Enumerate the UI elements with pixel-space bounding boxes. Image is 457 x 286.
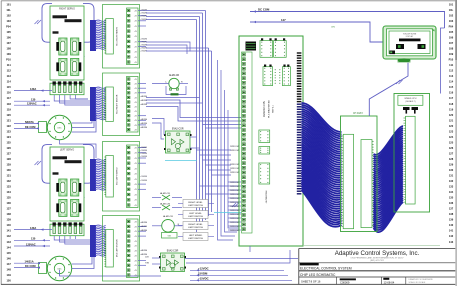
wire from DC COM down to CPU: [441, 28, 445, 94]
unit2 to bundle wires: [146, 97, 200, 99]
svg-text:106: 106: [6, 36, 11, 40]
svg-text:134: 134: [449, 190, 454, 194]
svg-text:SHEET 8 OF 16: SHEET 8 OF 16: [301, 279, 321, 283]
svg-text:MC1 RIGHT SERVO: MC1 RIGHT SERVO: [117, 27, 119, 46]
svg-text:12-08-04: 12-08-04: [384, 280, 395, 284]
DIP U1: [260, 41, 273, 58]
sheet border frame: [1, 0, 455, 2]
svg-text:111: 111: [449, 63, 454, 67]
fuse blocks: [403, 107, 410, 110]
bundle lower L-bends: [197, 149, 232, 151]
monitor stand: [398, 58, 411, 62]
svg-text:120: 120: [449, 113, 454, 117]
svg-text:120VAC: 120VAC: [26, 242, 36, 246]
cyan jumper wires: [165, 160, 197, 162]
svg-text:122: 122: [449, 124, 454, 128]
svg-text:139: 139: [6, 218, 11, 222]
svg-text:15VDM: 15VDM: [198, 272, 208, 276]
svg-text:DISPLAY: DISPLAY: [406, 35, 414, 38]
monitor drop wire: [369, 63, 408, 116]
wire label 14021A: [14, 262, 40, 264]
svg-text:MC2 RIGHT MOTOR: MC2 RIGHT MOTOR: [117, 94, 119, 113]
svg-text:108: 108: [449, 47, 454, 51]
15VDM label: [190, 274, 288, 276]
svg-text:109: 109: [449, 52, 454, 56]
label box LEFT SPEED LIMIT SWITCH: [178, 236, 183, 238]
svg-text:148: 148: [6, 267, 11, 271]
svg-text:RIGHT LEVEL: RIGHT LEVEL: [188, 224, 203, 226]
wire label DE COM: [14, 127, 39, 129]
svg-text:+12VDC: +12VDC: [198, 267, 209, 271]
svg-text:NDATA: NDATA: [25, 120, 34, 124]
svg-text:+AVDM: +AVDM: [140, 249, 147, 252]
DIP U5: [282, 67, 290, 86]
svg-text:+AVDM: +AVDM: [140, 225, 147, 228]
speed CPU connector: [406, 116, 416, 204]
extra bundle verticals: [218, 60, 234, 240]
svg-text:+5VDM: +5VDM: [140, 39, 147, 41]
wire harness loop around RIGHT SERVO drive: [42, 4, 94, 43]
svg-text:CEM2314 CPU: CEM2314 CPU: [263, 101, 266, 118]
svg-text:Adaptive Control Systems, Inc.: Adaptive Control Systems, Inc.: [335, 250, 420, 257]
svg-text:144: 144: [6, 245, 11, 249]
svg-text:136: 136: [6, 201, 11, 205]
CH assembly outline: [341, 116, 378, 232]
svg-text:P04: P04: [449, 25, 454, 29]
svg-text:1+: 1+: [165, 82, 167, 84]
svg-text:103: 103: [449, 19, 454, 23]
svg-text:142: 142: [6, 234, 11, 238]
svg-text:102: 102: [449, 13, 454, 17]
svg-text:118: 118: [449, 102, 454, 106]
svg-text:138: 138: [449, 212, 454, 216]
svg-text:140: 140: [449, 223, 454, 227]
svg-text:(802) 447-7322: (802) 447-7322: [370, 260, 385, 262]
wire label 130: [14, 100, 50, 102]
svg-text:101: 101: [449, 2, 454, 6]
wire label 130A (right channel): [14, 90, 52, 92]
wires into upper EVA box: [152, 119, 164, 136]
DIP U6 (socket): [259, 130, 270, 143]
svg-text:+5VDM: +5VDM: [140, 180, 147, 182]
title block frame: [299, 248, 456, 250]
title cell: [300, 263, 319, 266]
svg-text:LIMIT SWITCH: LIMIT SWITCH: [188, 227, 203, 229]
svg-text:119: 119: [449, 107, 454, 111]
svg-text:GB: GB: [168, 236, 172, 238]
cable slash mark: [35, 161, 42, 165]
svg-text:119: 119: [7, 107, 12, 111]
wire DC COM: [250, 12, 445, 29]
svg-text:145: 145: [6, 251, 11, 255]
svg-text:PWRCOM: PWRCOM: [230, 194, 239, 196]
svg-text:DC COM: DC COM: [258, 7, 270, 11]
ribbon cable coil: [90, 87, 96, 121]
svg-text:125: 125: [6, 140, 11, 144]
svg-text:121: 121: [449, 118, 454, 122]
svg-text:130A: 130A: [30, 226, 36, 230]
bundle to PLC left pins: [197, 117, 242, 119]
svg-text:MC3 LEFT SERVO: MC3 LEFT SERVO: [117, 167, 119, 185]
D-sub connectors on drive (2x2): [59, 179, 67, 196]
svg-text:129: 129: [6, 163, 11, 167]
svg-text:SPEED CPU: SPEED CPU: [404, 98, 417, 100]
svg-text:116: 116: [449, 91, 454, 95]
svg-text:−15VDC: −15VDC: [198, 277, 209, 281]
DIP U8: [259, 163, 270, 184]
svg-text:143: 143: [6, 240, 11, 244]
label box LEFT LEVEL LIMIT SWITCH: [178, 214, 183, 216]
svg-text:LIMIT SWITCH: LIMIT SWITCH: [188, 205, 203, 207]
svg-text:120: 120: [6, 113, 11, 117]
svg-text:PWRCOM: PWRCOM: [230, 202, 239, 204]
label box RIGHT LEVEL LIMIT SWITCH: [178, 203, 183, 205]
svg-text:142: 142: [449, 234, 454, 238]
svg-text:+AVDM: +AVDM: [140, 229, 147, 232]
svg-text:111: 111: [7, 63, 12, 67]
svg-text:PWRCOM: PWRCOM: [230, 146, 239, 148]
svg-text:PWRCOM: PWRCOM: [230, 168, 239, 170]
svg-text:P10: P10: [449, 58, 454, 62]
terminal unit MC2 RIGHT MOTOR: [103, 73, 140, 136]
svg-text:132: 132: [6, 179, 11, 183]
svg-text:+5VDM: +5VDM: [140, 147, 147, 149]
svg-text:136: 136: [449, 201, 454, 205]
svg-text:115: 115: [449, 85, 454, 89]
svg-text:106: 106: [449, 36, 454, 40]
svg-text:PWRCOM: PWRCOM: [230, 164, 239, 166]
speed CPU assembly: [394, 94, 430, 213]
svg-text:ALM2-CR: ALM2-CR: [163, 215, 173, 218]
svg-text:10L: 10L: [449, 8, 454, 12]
svg-text:127: 127: [449, 151, 454, 155]
CH connector J1: [343, 134, 353, 228]
svg-text:5752 PERSHING LANE, NORTH BENN: 5752 PERSHING LANE, NORTH BENNINGTON, VT…: [350, 256, 404, 259]
ribbon cable coil: [90, 20, 96, 51]
svg-text:LIMIT SWITCH: LIMIT SWITCH: [188, 238, 203, 240]
svg-text:+5VDM: +5VDM: [140, 156, 147, 158]
PLC input stub wires with labels: [228, 181, 241, 183]
svg-text:101: 101: [6, 2, 11, 6]
servo motor: [47, 256, 71, 280]
DIP U4 (socket): [275, 69, 276, 70]
drive bottom terminal strip: [50, 224, 84, 236]
svg-text:116: 116: [7, 91, 12, 95]
servo drive box RIGHT SERVO: [50, 6, 84, 80]
svg-text:128: 128: [6, 157, 11, 161]
svg-text:LEFT LEVEL: LEFT LEVEL: [189, 213, 203, 215]
svg-text:130: 130: [449, 168, 454, 172]
svg-text:+5VDM: +5VDM: [140, 153, 147, 155]
svg-text:J4-CEM2314: J4-CEM2314: [266, 190, 268, 204]
svg-text:PWRCOM: PWRCOM: [230, 206, 239, 208]
svg-text:126: 126: [6, 146, 11, 150]
svg-text:137: 137: [449, 207, 454, 211]
PLC bottom wires: [249, 246, 251, 252]
svg-text:P10: P10: [6, 58, 11, 62]
motor terminal box: [39, 122, 47, 133]
svg-text:102: 102: [6, 13, 11, 17]
svg-text:143: 143: [449, 240, 454, 244]
svg-text:135: 135: [449, 196, 454, 200]
svg-text:124: 124: [6, 135, 11, 139]
wire harness loop around LEFT SERVO drive: [42, 145, 94, 184]
svg-text:139: 139: [449, 218, 454, 222]
svg-text:LEFT SERVO: LEFT SERVO: [60, 149, 74, 151]
wire label NDATA: [14, 122, 39, 124]
cable slash marks: [78, 56, 85, 60]
GB box: [162, 233, 178, 239]
svg-text:109: 109: [6, 52, 11, 56]
svg-text:125: 125: [449, 140, 454, 144]
svg-text:117: 117: [7, 96, 12, 100]
wire 147: [250, 22, 383, 42]
svg-text:150: 150: [6, 278, 11, 282]
svg-text:138: 138: [6, 212, 11, 216]
svg-text:PWRCOM: PWRCOM: [230, 222, 239, 224]
motor 2 wires: [72, 250, 92, 264]
svg-text:10L: 10L: [6, 8, 11, 12]
D-sub connectors on drive (2x2): [59, 38, 67, 55]
svg-text:131: 131: [6, 174, 11, 178]
svg-text:141: 141: [449, 229, 454, 233]
svg-text:EVA2-COR: EVA2-COR: [172, 128, 184, 131]
svg-text:TVB: TVB: [145, 263, 150, 265]
wire label 120VAC: [14, 104, 50, 106]
svg-text:121: 121: [6, 118, 11, 122]
svg-text:PWRCOM: PWRCOM: [230, 150, 239, 152]
svg-text:130: 130: [6, 168, 11, 172]
svg-text:105: 105: [449, 30, 454, 34]
svg-text:SCALE: NO SCALE: SCALE: NO SCALE: [409, 281, 427, 284]
svg-text:123: 123: [449, 129, 454, 133]
svg-text:+AVDM: +AVDM: [140, 126, 147, 129]
svg-text:ALM2-CR: ALM2-CR: [169, 74, 179, 77]
terminal unit MC1 RIGHT SERVO: [103, 5, 140, 69]
svg-text:130A: 130A: [30, 87, 36, 91]
drive front-panel black bars: [53, 15, 68, 18]
svg-text:DC COM: DC COM: [25, 264, 36, 268]
svg-text:+5VDM: +5VDM: [140, 176, 147, 178]
lower horizontal feeder wires: [186, 258, 298, 260]
svg-text:C00009: C00009: [340, 281, 350, 285]
svg-text:107: 107: [6, 41, 11, 45]
servo drive box LEFT SERVO: [50, 147, 84, 221]
svg-text:108: 108: [6, 47, 11, 51]
CH connector J2: [361, 140, 372, 228]
svg-text:117: 117: [449, 96, 454, 100]
svg-text:133: 133: [449, 185, 454, 189]
svg-text:DMC: DMC: [57, 128, 62, 130]
assembly baseline: [302, 244, 440, 246]
motor 1 wires: [72, 110, 92, 123]
svg-text:130: 130: [31, 97, 36, 101]
svg-text:107: 107: [449, 41, 454, 45]
unit1 to bundle wires: [146, 16, 200, 18]
svg-text:EVA2-COR: EVA2-COR: [167, 250, 179, 253]
svg-text:126: 126: [449, 146, 454, 150]
drive strip wires down: [54, 95, 90, 101]
wire label 130 (left channel): [14, 239, 50, 241]
DIP U2: [274, 41, 287, 58]
svg-text:118: 118: [7, 102, 12, 106]
svg-text:133: 133: [6, 185, 11, 189]
svg-text:RIGHT LEVEL: RIGHT LEVEL: [188, 202, 203, 204]
-15VDC label: [190, 279, 292, 281]
PLC left pin header: [242, 52, 253, 233]
svg-text:114: 114: [449, 80, 454, 84]
svg-text:115: 115: [7, 85, 12, 89]
svg-text:PWRCOM: PWRCOM: [230, 182, 239, 184]
svg-text:14021A: 14021A: [25, 260, 34, 264]
svg-text:+AVDM: +AVDM: [140, 221, 147, 224]
svg-text:PWRCOM: PWRCOM: [230, 186, 239, 188]
svg-text:132: 132: [449, 179, 454, 183]
+12VDC label: [190, 269, 284, 271]
svg-text:PLC MASTER BD: PLC MASTER BD: [268, 100, 271, 118]
motor terminal box: [39, 263, 47, 274]
svg-text:PWRCOM: PWRCOM: [230, 172, 239, 174]
svg-text:+5VDM: +5VDM: [140, 150, 147, 152]
svg-text:PWRCOM: PWRCOM: [230, 218, 239, 220]
svg-text:+AVDM: +AVDM: [140, 99, 147, 102]
svg-text:141: 141: [6, 229, 11, 233]
svg-text:122: 122: [6, 124, 11, 128]
svg-text:MC4 LEFT MOTOR: MC4 LEFT MOTOR: [117, 239, 119, 257]
svg-text:105: 105: [6, 30, 11, 34]
svg-text:112: 112: [449, 69, 454, 73]
DIP U3: [263, 67, 273, 86]
svg-text:113: 113: [7, 74, 12, 78]
terminal unit MC4 LEFT MOTOR: [103, 216, 140, 282]
svg-text:124: 124: [449, 135, 454, 139]
svg-text:DRAWN BY: W. SHEPHERD: DRAWN BY: W. SHEPHERD: [409, 278, 434, 281]
svg-text:RIGHT SERVO: RIGHT SERVO: [59, 8, 75, 10]
cable slash mark: [35, 20, 42, 24]
svg-text:PWRCOM: PWRCOM: [230, 230, 239, 232]
svg-text:+AVDM: +AVDM: [140, 253, 147, 256]
svg-text:130: 130: [31, 237, 36, 241]
svg-text:PWRCOM: PWRCOM: [230, 226, 239, 228]
wire label 120VAC (left channel): [14, 245, 50, 247]
svg-text:129: 129: [449, 163, 454, 167]
svg-text:PWRCOM: PWRCOM: [230, 214, 239, 216]
mid vertical wire bundle: [196, 20, 198, 233]
PLC main board outline: [239, 36, 303, 246]
PLC right pin header: [297, 52, 302, 53]
svg-text:PWRCOM: PWRCOM: [230, 190, 239, 192]
ribbon cable coil: [90, 159, 96, 191]
svg-text:REV 2.1: REV 2.1: [273, 104, 275, 112]
power module (black): [246, 42, 257, 51]
ribbon harness A (PLC to CH assy): [302, 103, 342, 132]
servo motor: [47, 115, 71, 139]
svg-text:LEFT SPEED: LEFT SPEED: [189, 235, 203, 237]
svg-text:146: 146: [6, 256, 11, 260]
svg-text:CHIP LEG SCHEMATIC: CHIP LEG SCHEMATIC: [300, 273, 336, 277]
svg-text:ALM2-CR: ALM2-CR: [160, 203, 170, 206]
svg-text:ALM2-CR: ALM2-CR: [160, 192, 170, 195]
svg-text:134: 134: [6, 190, 11, 194]
svg-text:123: 123: [6, 129, 11, 133]
ribbon harness B (CH assy to speed CPU): [374, 126, 404, 155]
svg-text:CH ASSY: CH ASSY: [353, 112, 363, 115]
svg-text:120VAC: 120VAC: [27, 102, 37, 106]
ribbon cable coil: [90, 225, 96, 257]
svg-text:131: 131: [449, 174, 454, 178]
svg-text:113: 113: [449, 74, 454, 78]
svg-text:149: 149: [6, 273, 11, 277]
terminal unit MC3 LEFT SERVO: [103, 142, 140, 212]
svg-text:128: 128: [449, 157, 454, 161]
drive bottom terminal strip: [50, 83, 84, 95]
svg-text:140: 140: [6, 223, 11, 227]
wire label DC COM (left channel): [14, 267, 40, 269]
svg-text:147: 147: [6, 262, 11, 266]
svg-text:LIMIT SWITCH: LIMIT SWITCH: [188, 216, 203, 218]
wires into lower EVA box: [152, 257, 161, 259]
svg-text:PWRCOM: PWRCOM: [230, 210, 239, 212]
svg-text:DE COM: DE COM: [25, 125, 35, 129]
svg-text:114: 114: [7, 80, 12, 84]
svg-text:P04: P04: [6, 25, 11, 29]
operator monitor: [383, 26, 436, 59]
svg-text:127: 127: [6, 151, 11, 155]
svg-text:+AVDM: +AVDM: [140, 103, 147, 106]
svg-text:PWRCOM: PWRCOM: [230, 198, 239, 200]
svg-text:+AVDM: +AVDM: [140, 122, 147, 125]
DIP U7: [259, 147, 270, 155]
svg-text:137: 137: [6, 207, 11, 211]
label box RIGHT LEVEL LIMIT SWITCH: [178, 225, 183, 227]
svg-text:103: 103: [6, 19, 11, 23]
drive front-panel black bars: [53, 156, 68, 159]
svg-text:147: 147: [281, 18, 286, 22]
svg-text:ELECTRICAL CONTROL SYSTEM: ELECTRICAL CONTROL SYSTEM: [300, 267, 352, 271]
svg-text:+AVDM: +AVDM: [140, 118, 147, 121]
wire label 130A (left channel): [14, 229, 52, 231]
svg-text:(DEFAULT): (DEFAULT): [405, 100, 416, 103]
svg-text:112: 112: [7, 69, 12, 73]
svg-text:135: 135: [6, 196, 11, 200]
